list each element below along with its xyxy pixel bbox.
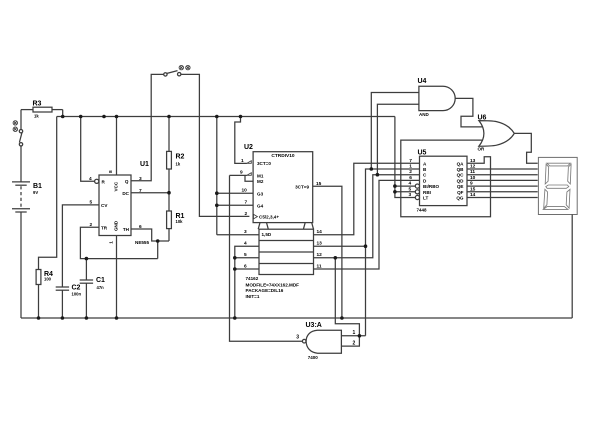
wire R2 to node T — [168, 169, 170, 193]
svg-text:MODFILE=74XX162.MDF: MODFILE=74XX162.MDF — [246, 282, 300, 287]
junction dots VCC rail — [61, 115, 65, 119]
wire U5 input C from U2 pin12 — [314, 175, 420, 258]
wire QB segment — [467, 168, 538, 170]
svg-text:7: 7 — [139, 188, 142, 194]
display segment A — [547, 163, 571, 166]
svg-text:2: 2 — [353, 340, 356, 346]
junction dot TR/C1 — [85, 257, 89, 261]
wire QG segment — [467, 197, 538, 199]
svg-text:100: 100 — [44, 276, 52, 281]
U2 neck tabs — [258, 223, 260, 230]
svg-text:M1: M1 — [257, 173, 264, 178]
U2 pin2 clock triangle — [253, 214, 257, 219]
resistor R4 — [36, 270, 41, 285]
wire TH pin6 to R1 — [131, 229, 169, 241]
wire switch SW2 to U2 clock pin2 — [181, 74, 250, 216]
timer U1 NE555 — [99, 175, 131, 236]
svg-text:C1: C1 — [96, 277, 105, 284]
U1 pin4 bubble — [95, 179, 99, 183]
junction dot TH node — [156, 239, 160, 243]
display segment B — [568, 164, 571, 184]
svg-text:GND: GND — [114, 220, 119, 231]
svg-text:4: 4 — [409, 181, 412, 187]
svg-text:4: 4 — [89, 176, 92, 182]
wire DC pin7 — [131, 192, 169, 194]
svg-text:M2: M2 — [257, 179, 264, 184]
svg-text:1,5D: 1,5D — [262, 232, 272, 237]
junction dots U2 pins 5,6 — [233, 256, 237, 260]
resistor R1 — [168, 193, 170, 211]
wire U4 input2 from QC net — [377, 104, 419, 175]
wire display common to ground — [571, 215, 573, 319]
wire U6 output to display segA — [514, 133, 537, 163]
svg-text:U4: U4 — [418, 78, 427, 85]
resistor R3 — [21, 109, 33, 111]
wire U4 output to U6 input1 — [455, 98, 483, 127]
resistor R2 — [167, 151, 172, 169]
junction dot U2 pin13 QB net — [364, 244, 368, 248]
wire U5 input D from U2 pin11 — [314, 180, 420, 269]
wire QD segment — [467, 179, 538, 181]
svg-text:1k: 1k — [34, 114, 39, 119]
svg-text:C5/2,3,4+: C5/2,3,4+ — [259, 215, 279, 220]
junction dots U5 BI RBI — [393, 184, 397, 188]
svg-text:TR: TR — [101, 225, 108, 230]
U2 cells block — [259, 229, 314, 274]
wire pins 4,5,6 to ground — [235, 246, 259, 318]
U2 pin9 polarity triangle — [247, 173, 252, 176]
wire QE segment — [467, 185, 538, 187]
svg-text:VCC: VCC — [114, 181, 119, 191]
AND gate U4 — [419, 86, 455, 110]
wire U1 GND pin1 — [116, 236, 118, 319]
svg-text:U6: U6 — [478, 115, 487, 122]
svg-text:14: 14 — [317, 229, 323, 235]
svg-text:BI/RBO: BI/RBO — [423, 184, 440, 189]
wire left rail top — [20, 110, 22, 130]
svg-text:NE555: NE555 — [135, 240, 149, 245]
svg-text:9: 9 — [240, 170, 243, 176]
svg-text:QA: QA — [457, 161, 465, 166]
U2 pin1 polarity triangle — [247, 161, 252, 164]
svg-text:3CT=0: 3CT=0 — [257, 161, 271, 166]
junction dot U3A inputs — [358, 334, 362, 338]
wire U3:A input2 — [335, 258, 359, 346]
U5 pin 3 bubble — [415, 195, 419, 199]
wire U3:A input1 — [341, 335, 365, 337]
svg-text:7400: 7400 — [308, 355, 319, 360]
svg-text:U1: U1 — [140, 161, 149, 168]
wire G4 pin7 — [217, 204, 253, 206]
wire U5 QA staple route to U6 input2 — [401, 140, 491, 217]
svg-text:G4: G4 — [257, 203, 264, 208]
wire switch to battery — [20, 146, 22, 182]
NAND gate U3:A (mirrored) — [306, 330, 341, 353]
svg-text:CTRDIV10: CTRDIV10 — [271, 153, 295, 159]
svg-text:13: 13 — [317, 241, 323, 247]
7-segment display — [538, 157, 577, 214]
svg-text:3CT=9: 3CT=9 — [295, 184, 309, 189]
svg-text:QE: QE — [457, 184, 464, 189]
svg-text:R3: R3 — [33, 101, 42, 108]
wire U1 reset pin4 to VCC — [81, 117, 95, 182]
wire U4 input1 from QB net — [371, 93, 419, 170]
svg-text:CV: CV — [101, 203, 108, 208]
svg-text:QF: QF — [457, 190, 464, 195]
svg-text:1k: 1k — [176, 162, 181, 167]
svg-text:8: 8 — [108, 170, 114, 173]
svg-text:3: 3 — [139, 176, 142, 182]
svg-text:INIT=1: INIT=1 — [246, 294, 260, 299]
junction dot U2 pin12 branch — [334, 256, 338, 260]
wire U2 pin1 to VCC — [235, 117, 247, 164]
wire TR row — [80, 227, 157, 258]
svg-text:5: 5 — [409, 186, 412, 192]
capacitor C2 — [56, 286, 69, 288]
wire TH node down — [157, 241, 159, 259]
display segment E — [544, 189, 548, 208]
svg-text:5: 5 — [90, 199, 93, 205]
svg-text:3: 3 — [296, 335, 299, 341]
svg-text:RBI: RBI — [423, 190, 431, 195]
svg-text:QG: QG — [456, 196, 464, 201]
wire CV pin5 to C2 — [62, 205, 99, 287]
node VCC rail — [57, 116, 395, 118]
wire VCC to R2 — [168, 117, 170, 152]
svg-text:2: 2 — [90, 222, 93, 228]
svg-text:7448: 7448 — [417, 208, 428, 213]
switch SW1 — [19, 130, 22, 133]
svg-text:QC: QC — [457, 173, 465, 178]
junction dot QB to U4 — [370, 167, 374, 171]
svg-text:U2: U2 — [244, 144, 253, 151]
svg-text:2: 2 — [245, 211, 248, 217]
svg-text:6: 6 — [139, 224, 142, 230]
node ground rail — [21, 317, 572, 319]
switch SW2 — [164, 73, 167, 76]
capacitor C1 — [85, 259, 87, 280]
svg-text:12: 12 — [317, 252, 323, 258]
svg-text:DC: DC — [122, 191, 129, 196]
wire pin3 data A — [217, 234, 259, 236]
U5 pin 4 bubble — [415, 184, 419, 188]
svg-text:QD: QD — [457, 178, 465, 183]
svg-text:74162: 74162 — [246, 276, 259, 281]
wire U3:A output to U2 pin9 — [230, 175, 303, 341]
wire U5 input B / QB net — [366, 169, 420, 336]
junction dots G3 G4 — [215, 191, 219, 195]
wire BI stub — [395, 185, 416, 187]
svg-text:100n: 100n — [72, 291, 82, 296]
svg-text:OR: OR — [478, 147, 486, 152]
svg-text:AND: AND — [419, 112, 429, 117]
junction dot QC to U4 — [376, 173, 380, 177]
svg-text:U3:A: U3:A — [306, 322, 322, 329]
wire QF segment — [467, 191, 538, 193]
wire QC segment — [467, 174, 538, 176]
svg-text:R2: R2 — [176, 154, 185, 161]
wire VCC to R4 — [39, 117, 57, 270]
svg-text:U5: U5 — [418, 150, 427, 157]
switch SW2 actuator marks — [179, 65, 190, 69]
svg-text:LT: LT — [423, 196, 428, 201]
svg-text:1: 1 — [108, 241, 114, 244]
svg-text:Q: Q — [125, 179, 129, 184]
wire U2 pin13 to QB net — [314, 245, 366, 247]
wire U2 pin9 fork — [230, 174, 247, 176]
svg-text:TH: TH — [123, 227, 130, 232]
wire Q pin3 riser to switch — [131, 74, 164, 180]
svg-text:B1: B1 — [33, 183, 42, 190]
switch SW1 actuator marks — [13, 121, 17, 132]
wire U2 pin15 to ground — [313, 186, 342, 318]
counter U2 74162 main block — [253, 152, 313, 223]
decoder U5 7448 — [420, 156, 468, 205]
svg-text:1: 1 — [353, 330, 356, 336]
svg-text:PACKAGE=DIL16: PACKAGE=DIL16 — [246, 288, 284, 293]
svg-text:9V: 9V — [33, 190, 38, 195]
display segment F — [545, 164, 549, 184]
svg-text:3: 3 — [409, 192, 412, 198]
wire RBI stub — [395, 191, 416, 193]
battery B1 — [12, 181, 30, 183]
svg-text:11: 11 — [317, 263, 322, 269]
svg-text:10k: 10k — [176, 219, 184, 224]
junction dots ground rail — [37, 316, 41, 320]
svg-text:47n: 47n — [97, 285, 105, 290]
OR gate U6 — [479, 121, 514, 147]
wire battery to ground rail — [20, 212, 22, 318]
wire VCC to U5 LT/RBI/BI — [395, 117, 416, 198]
svg-text:G3: G3 — [257, 191, 264, 196]
display segment G — [546, 185, 569, 188]
svg-text:QB: QB — [457, 167, 465, 172]
wire G3 pin10 — [217, 192, 253, 194]
wire U1 VCC pin8 — [116, 117, 118, 176]
wire U5 input A from U2 pin14 — [314, 163, 420, 235]
wire VCC riser to G3 G4 pin3 — [216, 117, 218, 235]
junction dot node T — [167, 191, 171, 195]
U5 pin 5 bubble — [415, 190, 419, 194]
display segment D — [543, 207, 568, 210]
display segment C — [566, 189, 570, 208]
